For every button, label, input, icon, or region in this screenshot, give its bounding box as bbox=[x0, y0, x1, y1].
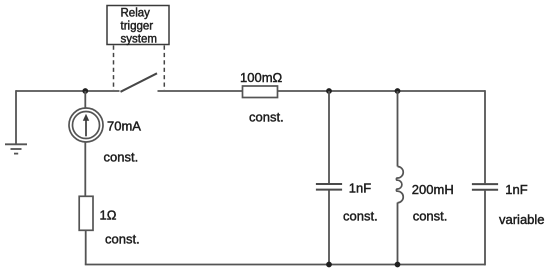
ground bbox=[5, 144, 27, 153]
svg-text:1nF: 1nF bbox=[349, 181, 371, 196]
node dot top branch A bbox=[326, 88, 332, 94]
wire node to current source bbox=[84, 91, 86, 108]
inductor L1 200mH bbox=[396, 167, 403, 203]
node dot bottom branch A bbox=[326, 262, 332, 268]
switch S1 arm bbox=[121, 73, 158, 92]
wire left drop to ground bbox=[15, 90, 17, 144]
node dot top branch B bbox=[395, 88, 401, 94]
dashed control line right bbox=[163, 46, 165, 91]
svg-text:Relay: Relay bbox=[121, 8, 151, 20]
svg-text:1nF: 1nF bbox=[505, 182, 527, 197]
svg-text:200mH: 200mH bbox=[412, 182, 454, 197]
svg-text:variable: variable bbox=[499, 212, 545, 227]
wire branch A upper bbox=[328, 91, 330, 183]
svg-text:const.: const. bbox=[104, 150, 139, 165]
svg-text:const.: const. bbox=[343, 209, 378, 224]
svg-text:70mA: 70mA bbox=[107, 119, 141, 134]
wire current source to resistor R1 bbox=[84, 142, 86, 197]
dashed control line left bbox=[113, 46, 115, 91]
svg-text:const.: const. bbox=[249, 110, 284, 125]
wire top rail right segment bbox=[158, 90, 486, 92]
capacitor C1 1nF bbox=[316, 184, 342, 190]
resistor R2 100mohm bbox=[243, 86, 278, 98]
wire bottom rail bbox=[85, 264, 485, 266]
wire branch B lower bbox=[397, 203, 399, 265]
svg-text:100mΩ: 100mΩ bbox=[240, 70, 283, 85]
wire branch C lower bbox=[484, 191, 486, 266]
wire branch B upper bbox=[397, 91, 399, 167]
svg-text:trigger: trigger bbox=[121, 21, 154, 33]
wire branch C upper bbox=[484, 90, 486, 183]
node junction dot at source branch bbox=[82, 88, 88, 94]
wire branch A lower bbox=[328, 191, 330, 265]
svg-text:system: system bbox=[121, 34, 157, 46]
svg-text:1Ω: 1Ω bbox=[100, 208, 117, 223]
resistor R1 1ohm bbox=[79, 196, 93, 230]
node dot bottom branch B bbox=[395, 262, 401, 268]
svg-text:const.: const. bbox=[413, 209, 448, 224]
current source I1 70mA bbox=[69, 108, 103, 142]
capacitor C2 1nF variable bbox=[472, 184, 498, 190]
relay trigger system box bbox=[107, 6, 169, 46]
wire R1 to bottom rail bbox=[85, 230, 87, 264]
wire top rail left segment bbox=[16, 90, 120, 92]
svg-text:const.: const. bbox=[105, 232, 140, 247]
